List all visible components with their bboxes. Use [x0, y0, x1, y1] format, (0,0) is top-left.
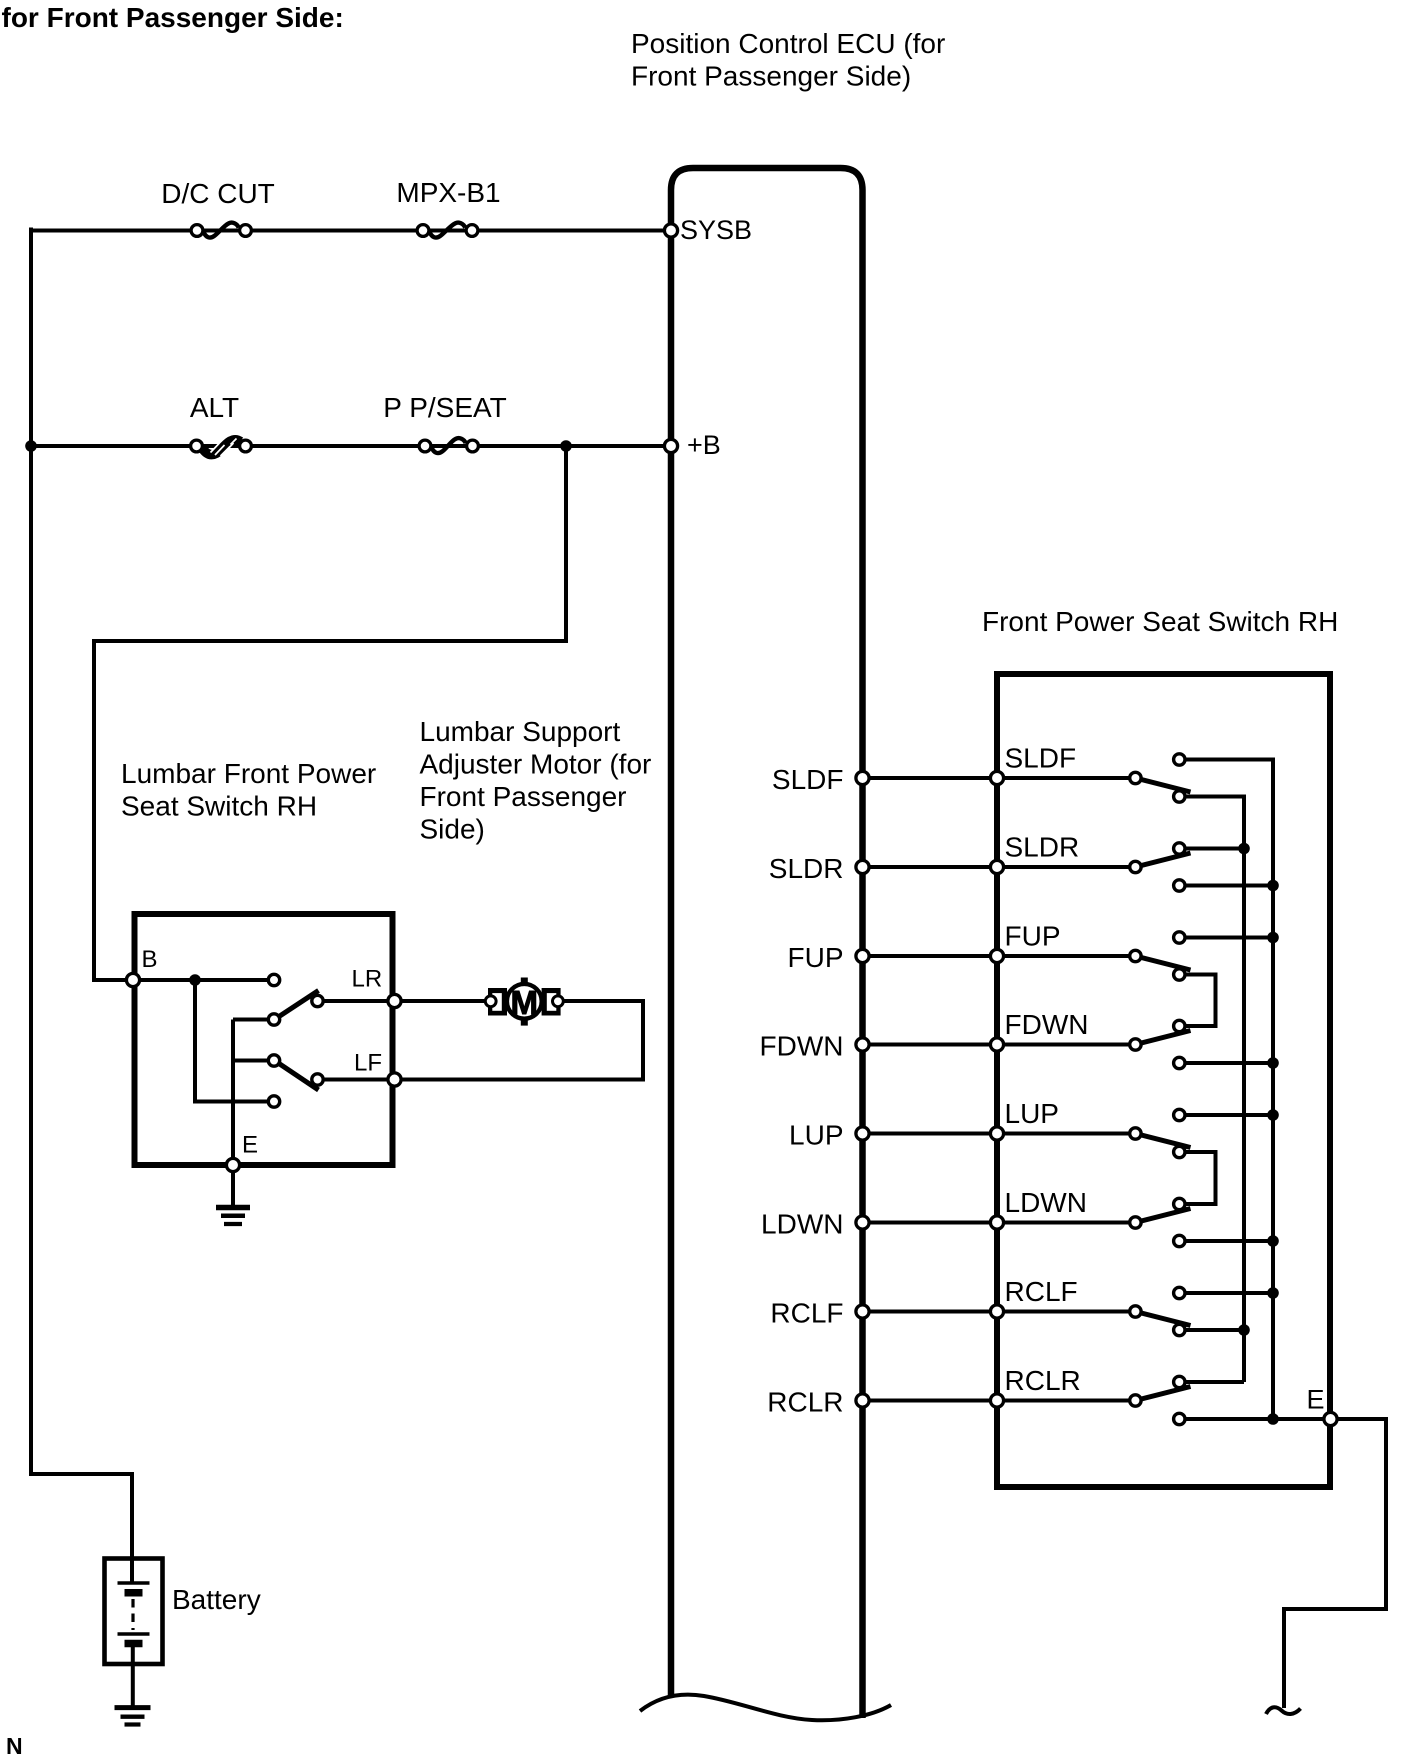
contact LDWN upper — [1174, 1198, 1185, 1209]
switch box pin RCLF — [990, 1305, 1003, 1318]
switch box pin SLDF — [990, 771, 1003, 784]
svg-text:B: B — [142, 946, 158, 973]
contact: LR throw fixed — [268, 1014, 279, 1025]
svg-text:FDWN: FDWN — [760, 1031, 844, 1062]
svg-text:LF: LF — [354, 1050, 382, 1077]
switch arm RCLR — [1137, 1387, 1190, 1401]
wire: left battery riser down to battery — [31, 228, 132, 1584]
svg-text:P P/SEAT: P P/SEAT — [383, 392, 506, 423]
svg-text:RCLR: RCLR — [767, 1387, 843, 1418]
junction: RCLF upper / outer bus — [1267, 1287, 1279, 1299]
wire: ECU pin FUP to switch — [863, 954, 1136, 958]
switch box pin SLDR — [990, 860, 1003, 873]
switch box pin FUP — [990, 949, 1003, 962]
svg-text:Lumbar Support: Lumbar Support — [420, 716, 621, 747]
moving contact LUP — [1130, 1128, 1141, 1139]
contact RCLR upper — [1174, 1376, 1185, 1387]
fusible link ALT — [203, 440, 241, 455]
switch arm LR (moving contact) — [276, 991, 319, 1019]
ECU pin +B — [664, 439, 677, 452]
svg-text:Seat Switch RH: Seat Switch RH — [121, 791, 317, 822]
pin LR — [388, 994, 401, 1007]
svg-text:RCLF: RCLF — [1005, 1276, 1078, 1307]
switch arm FUP — [1137, 957, 1190, 971]
svg-text:+B: +B — [687, 430, 721, 460]
junction on B row — [189, 974, 201, 986]
motor terminal left — [485, 996, 496, 1007]
wire: motor to LF pin (return loop) — [402, 1001, 644, 1080]
switch arm FDWN — [1137, 1031, 1190, 1045]
wire: battery feed to SYSB (top row) — [31, 229, 667, 233]
wire: contact below RCLR to pin E — [1179, 1417, 1330, 1421]
switch arm SLDF — [1137, 779, 1190, 793]
junction: left feed — [25, 440, 37, 452]
svg-text:LDWN: LDWN — [761, 1209, 843, 1240]
svg-text:SLDF: SLDF — [1005, 743, 1077, 774]
wire: FUP throw to FDWN throw bracket — [1179, 975, 1215, 1027]
ECU pin FDWN — [856, 1038, 869, 1051]
ECU pin SYSB — [664, 224, 677, 237]
wire: contact above RCLF to outer bus — [1179, 1291, 1273, 1295]
svg-text:LUP: LUP — [1005, 1098, 1059, 1129]
ECU pin RCLF — [856, 1305, 869, 1318]
contact FDWN upper — [1174, 1020, 1185, 1031]
fuse MPX-B1 — [429, 223, 465, 238]
contact LUP lower — [1174, 1146, 1185, 1157]
contact: LF throw fixed — [268, 1055, 279, 1066]
motor terminal right — [553, 996, 564, 1007]
moving contact RCLF — [1130, 1306, 1141, 1317]
wire: ECU pin FDWN to switch — [863, 1043, 1136, 1047]
contact: LR arm end — [312, 995, 323, 1006]
wire: SLDR throw contact to inner bus — [1179, 847, 1244, 851]
contact RCLF lower — [1174, 1324, 1185, 1335]
ECU pin LDWN — [856, 1216, 869, 1229]
svg-text:E: E — [242, 1132, 258, 1159]
svg-text:SYSB: SYSB — [680, 215, 752, 245]
junction: FDWN lower / outer bus — [1267, 1057, 1279, 1069]
contact SLDR lower — [1174, 880, 1185, 891]
svg-text:Side): Side) — [420, 814, 485, 845]
contact: LF arm end — [312, 1074, 323, 1085]
wire: ECU pin RCLF to switch — [863, 1310, 1136, 1314]
wire: ECU pin LDWN to switch — [863, 1221, 1136, 1225]
wire: contact above SLDF to outer bus — [1179, 758, 1273, 762]
svg-text:Battery: Battery — [172, 1584, 261, 1615]
bus: outer (to E) — [1271, 758, 1275, 1420]
moving contact RCLR — [1130, 1395, 1141, 1406]
wire: LUP throw to LDWN throw bracket — [1179, 1152, 1215, 1204]
wire: battery feed to +B (second row) — [31, 444, 667, 448]
wire: LR pin to motor — [402, 999, 489, 1003]
switch box pin LDWN — [990, 1216, 1003, 1229]
contact FUP lower — [1174, 969, 1185, 980]
battery cell 2 positive plate — [118, 1632, 150, 1635]
wire: LF row to pin LF — [322, 1078, 395, 1082]
motor M1 lumbar support adjuster motor — [488, 988, 507, 1016]
bus: inner — [1242, 795, 1246, 1383]
wire: +B branch down to lumbar switch pin B — [94, 444, 566, 980]
switch box pin RCLR — [990, 1394, 1003, 1407]
fuse D/C CUT — [203, 223, 239, 238]
contact SLDR upper — [1174, 843, 1185, 854]
svg-text:SLDR: SLDR — [769, 853, 844, 884]
moving contact FUP — [1130, 950, 1141, 961]
contact RCLR lower — [1174, 1413, 1185, 1424]
contact: lower fixed — [268, 1096, 279, 1107]
ground break squiggle (seat switch E) — [1266, 1707, 1301, 1714]
switch arm SLDR — [1137, 853, 1190, 867]
wire: pin E to ground — [231, 1172, 235, 1205]
junction: +B branch to lumbar switch — [560, 440, 572, 452]
ECU pin SLDR — [856, 860, 869, 873]
battery dashed link — [131, 1599, 134, 1630]
wire: E bus with branches to middle contacts — [231, 1020, 235, 1166]
battery cell 1 positive plate — [118, 1581, 150, 1584]
wire: ECU pin SLDR to switch — [863, 865, 1136, 869]
svg-text:N: N — [6, 1733, 23, 1759]
svg-text:ALT: ALT — [190, 392, 239, 423]
contact: B row fixed — [268, 974, 279, 985]
wire: pin B row — [133, 978, 274, 982]
contact SLDF lower — [1174, 791, 1185, 802]
svg-text:LDWN: LDWN — [1005, 1187, 1087, 1218]
wire: ECU pin SLDF to switch — [863, 776, 1136, 780]
ECU pin FUP — [856, 949, 869, 962]
moving contact FDWN — [1130, 1039, 1141, 1050]
svg-text:RCLF: RCLF — [770, 1298, 843, 1329]
svg-text:FUP: FUP — [788, 942, 844, 973]
junction: LUP upper / outer bus — [1267, 1109, 1279, 1121]
ECU pin SLDF — [856, 771, 869, 784]
switch box pin FDWN — [990, 1038, 1003, 1051]
svg-text:M: M — [511, 984, 539, 1021]
moving contact LDWN — [1130, 1217, 1141, 1228]
battery cell 1 negative plate — [125, 1589, 143, 1597]
pin E (seat switch) — [1324, 1412, 1337, 1425]
battery B1 box — [105, 1559, 163, 1665]
svg-text:MPX-B1: MPX-B1 — [396, 177, 500, 208]
contact FUP upper — [1174, 932, 1185, 943]
wire: ECU pin RCLR to switch — [863, 1399, 1136, 1403]
svg-text:Adjuster Motor (for: Adjuster Motor (for — [420, 749, 652, 780]
wire: contact above FUP to outer bus — [1179, 936, 1273, 940]
wire: RCLF throw contact to inner bus — [1179, 1328, 1244, 1332]
switch arm LUP — [1137, 1134, 1190, 1148]
battery cell 2 negative plate — [125, 1640, 143, 1648]
junction: LDWN lower / outer bus — [1267, 1235, 1279, 1247]
svg-text:Front Passenger: Front Passenger — [420, 781, 627, 812]
wire: contact above LUP to outer bus — [1179, 1113, 1273, 1117]
contact FDWN lower — [1174, 1057, 1185, 1068]
fuse P P/SEAT — [431, 438, 466, 453]
wire: contact below LDWN to outer bus — [1179, 1239, 1273, 1243]
svg-text:SLDR: SLDR — [1005, 832, 1080, 863]
svg-text:Lumbar Front Power: Lumbar Front Power — [121, 758, 376, 789]
ECU U1 Position Control ECU body (rounded, open bottom) — [671, 168, 863, 1718]
moving contact SLDR — [1130, 861, 1141, 872]
wire: B bus down to lower contact — [195, 978, 268, 1102]
switch arm LDWN — [1137, 1209, 1190, 1223]
wire: contact below SLDR to outer bus — [1179, 884, 1273, 888]
junction: E row / outer bus — [1267, 1413, 1279, 1425]
ECU bottom break (wavy line) — [640, 1695, 891, 1721]
ECU pin RCLR — [856, 1394, 869, 1407]
ground: lumbar switch — [216, 1205, 250, 1211]
ground: battery — [115, 1705, 151, 1710]
wire: RCLR throw contact to inner bus — [1179, 1380, 1244, 1384]
switch arm LF (moving contact) — [276, 1062, 319, 1091]
svg-text:Position Control ECU (for: Position Control ECU (for — [631, 28, 945, 59]
svg-text:FDWN: FDWN — [1005, 1009, 1089, 1040]
junction: FUP upper / outer bus — [1267, 932, 1279, 944]
contact LDWN lower — [1174, 1235, 1185, 1246]
pin B — [126, 973, 139, 986]
svg-text:FUP: FUP — [1005, 921, 1061, 952]
contact RCLF upper — [1174, 1287, 1185, 1298]
pin E — [226, 1158, 239, 1171]
wire: battery to ground — [131, 1647, 135, 1707]
ECU pin LUP — [856, 1127, 869, 1140]
wire: ECU pin LUP to switch — [863, 1132, 1136, 1136]
svg-text:for Front Passenger Side:: for Front Passenger Side: — [2, 2, 344, 33]
contact SLDF upper — [1174, 754, 1185, 765]
wire: SLDF throw contact to inner bus — [1179, 795, 1244, 799]
switch box pin LUP — [990, 1127, 1003, 1140]
pin LF — [388, 1073, 401, 1086]
moving contact SLDF — [1130, 772, 1141, 783]
svg-text:SLDF: SLDF — [772, 764, 844, 795]
svg-text:E: E — [1307, 1385, 1325, 1415]
lumbar front power seat switch RH box — [135, 914, 393, 1165]
wire: contact below FDWN to outer bus — [1179, 1061, 1273, 1065]
junction: SLDR throw / inner bus — [1238, 843, 1250, 855]
junction: RCLF throw / inner bus — [1238, 1324, 1250, 1336]
svg-text:Front Passenger Side): Front Passenger Side) — [631, 61, 911, 92]
svg-text:Front Power Seat Switch RH: Front Power Seat Switch RH — [982, 606, 1338, 637]
junction: SLDR lower / outer bus — [1267, 880, 1279, 892]
wire: LR row to pin LR — [322, 999, 395, 1003]
contact LUP upper — [1174, 1109, 1185, 1120]
svg-text:RCLR: RCLR — [1005, 1365, 1081, 1396]
front power seat switch RH box — [997, 674, 1330, 1487]
switch arm RCLF — [1137, 1312, 1190, 1326]
svg-text:D/C CUT: D/C CUT — [161, 178, 275, 209]
wire: pin E to ground break — [1284, 1419, 1386, 1708]
svg-text:LUP: LUP — [789, 1120, 843, 1151]
svg-text:LR: LR — [352, 966, 383, 993]
